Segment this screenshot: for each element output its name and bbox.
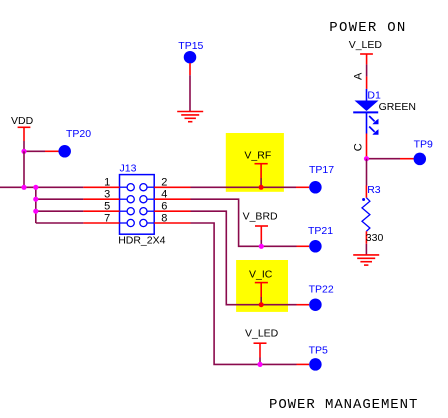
highlight box V_IC [236, 260, 288, 312]
wire row pin7 [36, 222, 84, 224]
svg-text:V_LED: V_LED [245, 328, 279, 340]
wire V_LED to LED anode [366, 64, 368, 76]
svg-text:VDD: VDD [11, 115, 34, 127]
wire V_BRD node to TP21 [261, 245, 296, 247]
LED anode pin stub [366, 77, 368, 89]
test point TP15 [178, 40, 203, 75]
svg-text:C: C [352, 143, 364, 151]
wire V_RF stub [260, 178, 262, 187]
wire node to R3 [366, 159, 368, 186]
pin stub 2 [154, 186, 190, 188]
wire pin2 to V_RF node [191, 186, 262, 188]
test point TP22 [297, 284, 334, 311]
wire row pin5 [36, 210, 84, 212]
svg-text:POWER ON: POWER ON [329, 20, 406, 36]
wire left bus vertical [35, 187, 37, 223]
svg-text:A: A [352, 72, 364, 80]
test point TP9 [400, 138, 433, 165]
node LED cathode junction [364, 156, 369, 161]
wire V_BRD stub [260, 240, 262, 246]
LED cathode stub [366, 134, 368, 159]
LED D1 [353, 89, 381, 135]
wire pin8 to V_LED node [191, 223, 261, 364]
pin stub 7 [83, 222, 119, 224]
node V_RF junction [259, 185, 264, 190]
connector J13 [118, 163, 165, 247]
node junction bus row3 [33, 197, 38, 202]
wire V_RF node to TP17 [261, 186, 296, 188]
wire VDD stub to junction [23, 141, 25, 151]
svg-text:5: 5 [104, 201, 110, 213]
node junction bus top [33, 185, 38, 190]
test point TP17 [296, 164, 334, 194]
svg-text:330: 330 [366, 232, 384, 244]
resistor R3 [362, 184, 381, 244]
svg-text:4: 4 [161, 189, 167, 201]
svg-text:1: 1 [104, 177, 110, 189]
pin stub 5 [83, 210, 119, 212]
power symbol V_RF [244, 149, 271, 178]
pin stub 6 [154, 210, 190, 212]
svg-text:6: 6 [161, 201, 167, 213]
svg-text:7: 7 [104, 212, 110, 224]
svg-text:POWER MANAGEMENT: POWER MANAGEMENT [269, 397, 418, 413]
wire row pin3 [36, 198, 84, 200]
svg-text:TP9: TP9 [414, 138, 433, 150]
wire VDD column down [23, 151, 25, 187]
pin stub 3 [83, 198, 119, 200]
svg-text:R3: R3 [367, 184, 381, 196]
wire V_LED node to TP5 [260, 363, 297, 365]
power symbol V_LED (bottom) [245, 328, 279, 358]
svg-text:V_LED: V_LED [349, 39, 383, 51]
svg-text:D1: D1 [367, 90, 381, 102]
wire pin4 to V_BRD node [191, 199, 262, 246]
svg-text:HDR_2X4: HDR_2X4 [118, 235, 165, 247]
svg-text:GREEN: GREEN [379, 101, 416, 113]
test point TP21 [297, 225, 334, 253]
node V_IC junction [259, 302, 264, 307]
node junction row1 left [21, 185, 26, 190]
wire junction to TP20 [24, 150, 45, 152]
node V_LED junction [257, 362, 262, 367]
ground below TP15 [177, 112, 203, 122]
svg-text:TP20: TP20 [66, 128, 91, 140]
wire pin6 to V_IC node [191, 211, 262, 305]
svg-text:2: 2 [161, 177, 167, 189]
power symbol V_LED (top) [349, 39, 383, 65]
wire V_IC node to TP22 [261, 304, 296, 306]
pin stub 8 [154, 222, 190, 224]
node junction bus row5 [33, 209, 38, 214]
power symbol VDD [11, 115, 34, 141]
wire TP15 to ground [189, 75, 191, 111]
wire V_LED stub [259, 358, 261, 365]
svg-text:TP5: TP5 [309, 344, 328, 356]
power symbol V_BRD [243, 210, 278, 240]
svg-text:V_RF: V_RF [244, 149, 271, 161]
highlight box V_RF [226, 133, 284, 192]
wire node to TP9 [367, 158, 401, 160]
node junction at VDD column [21, 149, 26, 154]
svg-text:J13: J13 [120, 163, 137, 175]
svg-text:3: 3 [104, 189, 110, 201]
svg-text:V_BRD: V_BRD [243, 210, 278, 222]
svg-text:TP22: TP22 [309, 284, 334, 296]
power symbol V_IC [249, 269, 273, 297]
svg-text:TP17: TP17 [309, 164, 334, 176]
pin stub 1 [83, 186, 119, 188]
pin stub 4 [154, 198, 190, 200]
svg-text:TP21: TP21 [308, 225, 333, 237]
test point TP5 [297, 344, 329, 370]
svg-text:TP15: TP15 [178, 40, 203, 52]
node V_BRD junction [259, 244, 264, 249]
test point TP20 [45, 128, 91, 158]
wire row pin1 from left edge [0, 186, 83, 188]
wire R3 to ground [365, 244, 367, 255]
wire V_IC stub [260, 297, 262, 305]
ground below R3 [353, 255, 379, 265]
svg-text:8: 8 [161, 212, 167, 224]
svg-text:V_IC: V_IC [249, 269, 273, 281]
